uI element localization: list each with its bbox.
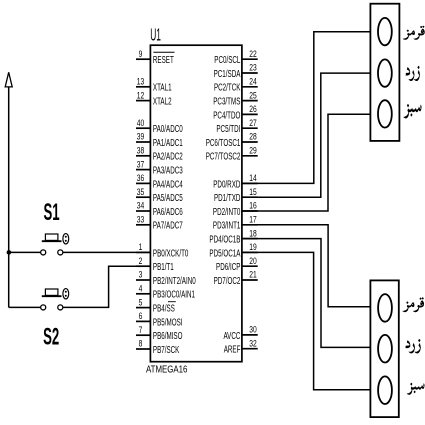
- svg-text:AREF: AREF: [224, 343, 241, 355]
- svg-text:PD2/INT0: PD2/INT0: [213, 205, 241, 217]
- lamp TL2 green: [378, 376, 392, 404]
- svg-text:PB6/MISO: PB6/MISO: [153, 329, 183, 341]
- pin 32 AREF of U1: [224, 338, 258, 355]
- wire vertical rail on left: [8, 77, 10, 307]
- svg-text:PA0/ADC0: PA0/ADC0: [153, 122, 183, 134]
- wire pin16 PD2/INT0 to top lamp green: [242, 114, 371, 211]
- svg-text:30: 30: [249, 324, 257, 334]
- pin 3 PB2/INT2/AIN0 of U1: [136, 270, 196, 287]
- pin 36 PA4/ADC4 of U1: [136, 173, 183, 190]
- wire S2 right terminal up to pin 2 PB1: [63, 266, 150, 307]
- svg-text:S1: S1: [44, 199, 60, 226]
- pin 25 PC3/TMS of U1: [213, 90, 257, 107]
- svg-text:21: 21: [249, 270, 257, 280]
- svg-text:PA4/ADC4: PA4/ADC4: [153, 178, 183, 190]
- pin 39 PA1/ADC1 of U1: [136, 132, 183, 149]
- wire pin15 PD1/TXD to top lamp yellow: [242, 73, 371, 197]
- svg-text:PC0/SCL: PC0/SCL: [214, 53, 240, 65]
- pin 2 PB1/T1 of U1: [136, 256, 174, 273]
- wire pin17 PD3/INT1 to bottom lamp red: [242, 225, 371, 307]
- svg-text:13: 13: [137, 76, 145, 86]
- svg-text:29: 29: [249, 145, 257, 155]
- svg-text:PC2/TCK: PC2/TCK: [214, 81, 241, 93]
- svg-text:24: 24: [249, 76, 257, 86]
- pin 8 PB7/SCK of U1: [136, 339, 180, 356]
- svg-text:2: 2: [139, 256, 143, 266]
- svg-text:28: 28: [249, 132, 257, 142]
- label sabz (green) top box: [404, 104, 422, 119]
- svg-text:4: 4: [139, 283, 143, 293]
- label qermez (red) top box: [403, 26, 425, 40]
- lamp TL2 red: [378, 294, 392, 322]
- switch S2 push button: [41, 289, 69, 310]
- svg-text:9: 9: [139, 49, 143, 59]
- label qermez (red) bottom box: [403, 297, 425, 312]
- lamp TL1 green: [378, 100, 392, 127]
- svg-text:PA6/ADC6: PA6/ADC6: [153, 205, 183, 217]
- svg-text:AVCC: AVCC: [223, 329, 240, 341]
- pin 33 PA7/ADC7 of U1: [136, 214, 183, 231]
- pin 18 PD4/OC1B of U1: [209, 228, 257, 245]
- svg-text:PA3/ADC3: PA3/ADC3: [153, 164, 183, 176]
- pin 37 PA3/ADC3 of U1: [136, 159, 183, 176]
- svg-text:PC6/TOSC1: PC6/TOSC1: [206, 136, 241, 148]
- svg-text:PB3/OC0/AIN1: PB3/OC0/AIN1: [153, 288, 195, 300]
- pin 4 PB3/OC0/AIN1 of U1: [136, 283, 195, 300]
- svg-text:18: 18: [249, 228, 257, 238]
- pin 35 PA5/ADC5 of U1: [136, 187, 183, 204]
- svg-text:33: 33: [137, 214, 145, 224]
- svg-text:27: 27: [249, 118, 257, 128]
- svg-text:19: 19: [249, 242, 257, 252]
- svg-text:S2: S2: [43, 324, 59, 351]
- svg-text:1: 1: [139, 242, 143, 252]
- pin 12 XTAL2 of U1: [136, 90, 172, 107]
- svg-text:37: 37: [137, 159, 145, 169]
- svg-text:PD0/RXD: PD0/RXD: [213, 178, 240, 190]
- svg-text:15: 15: [249, 187, 257, 197]
- svg-text:17: 17: [249, 214, 257, 224]
- lamp TL2 yellow: [378, 335, 392, 363]
- svg-text:PD1/TXD: PD1/TXD: [214, 191, 240, 203]
- svg-text:16: 16: [249, 201, 257, 211]
- wire pin14 PD0/RXD to top lamp red: [242, 32, 371, 184]
- svg-text:38: 38: [137, 145, 145, 155]
- svg-text:26: 26: [249, 104, 257, 114]
- pin 13 XTAL1 of U1: [136, 76, 172, 93]
- junction node dot at S1 row: [7, 250, 12, 255]
- svg-text:PB4/SS: PB4/SS: [153, 302, 175, 314]
- svg-text:PC3/TMS: PC3/TMS: [213, 95, 240, 107]
- svg-text:PD6/ICP: PD6/ICP: [216, 260, 241, 272]
- traffic light box TL2 (bottom) outline: [370, 280, 398, 417]
- pin 24 PC2/TCK of U1: [214, 76, 258, 93]
- traffic light box TL1 (top) outline: [370, 4, 399, 141]
- svg-text:PD3/INT1: PD3/INT1: [213, 219, 241, 231]
- svg-text:RESET: RESET: [153, 53, 174, 65]
- pin 19 PD5/OC1A of U1: [209, 242, 257, 259]
- pin 29 PC7/TOSC2 of U1: [206, 145, 258, 162]
- svg-text:6: 6: [139, 311, 143, 321]
- pin 38 PA2/ADC2 of U1: [136, 145, 183, 162]
- lamp TL1 yellow: [378, 59, 392, 86]
- label zard (yellow) bottom box: [405, 339, 420, 353]
- svg-text:25: 25: [249, 90, 257, 100]
- svg-text:ATMEGA16: ATMEGA16: [146, 364, 188, 375]
- svg-text:PD4/OC1B: PD4/OC1B: [209, 233, 240, 245]
- pin 23 PC1/SDA of U1: [214, 63, 258, 80]
- pin 5 PB4/SS of U1: [136, 297, 176, 314]
- pin 30 AVCC of U1: [223, 324, 257, 341]
- wire left rail corner to S2 left terminal: [9, 306, 41, 308]
- svg-text:36: 36: [137, 173, 145, 183]
- svg-text:PB2/INT2/AIN0: PB2/INT2/AIN0: [153, 274, 196, 286]
- pin 34 PA6/ADC6 of U1: [136, 201, 183, 218]
- svg-text:3: 3: [139, 270, 143, 280]
- wire pin18 PD4/OC1B to bottom lamp yellow: [242, 239, 371, 348]
- svg-text:40: 40: [137, 118, 145, 128]
- pin 1 PB0/XCK/T0 of U1: [136, 242, 189, 259]
- svg-text:8: 8: [139, 339, 143, 349]
- pin 22 PC0/SCL of U1: [214, 49, 257, 66]
- svg-text:PA5/ADC5: PA5/ADC5: [153, 191, 183, 203]
- wire S1 right terminal to pin 1 PB0: [63, 251, 150, 253]
- pin 17 PD3/INT1 of U1: [213, 214, 258, 231]
- pin 7 PB6/MISO of U1: [136, 325, 183, 342]
- wire pin19 PD5/OC1A to bottom lamp green: [242, 252, 371, 389]
- arrow terminal at top of left rail: [5, 72, 12, 87]
- lamp TL1 red: [378, 18, 392, 45]
- pin 27 PC5/TDI of U1: [216, 118, 257, 135]
- svg-text:34: 34: [137, 201, 145, 211]
- svg-text:PC1/SDA: PC1/SDA: [214, 67, 241, 79]
- svg-text:14: 14: [249, 173, 257, 183]
- pin 6 PB5/MOSI of U1: [136, 311, 182, 328]
- svg-text:PA2/ADC2: PA2/ADC2: [153, 150, 183, 162]
- svg-text:PD7/OC2: PD7/OC2: [214, 274, 241, 286]
- svg-text:PC7/TOSC2: PC7/TOSC2: [206, 150, 241, 162]
- pin 15 PD1/TXD of U1: [214, 187, 258, 204]
- svg-text:PB1/T1: PB1/T1: [153, 260, 174, 272]
- svg-text:22: 22: [249, 49, 257, 59]
- IC U1 body outline (ATMEGA16): [150, 45, 242, 362]
- svg-text:20: 20: [249, 256, 257, 266]
- label sabz (green) bottom box: [407, 383, 425, 395]
- wire left rail to S1 left terminal: [9, 251, 41, 253]
- svg-text:PA7/ADC7: PA7/ADC7: [153, 219, 183, 231]
- svg-text:PD5/OC1A: PD5/OC1A: [209, 247, 240, 259]
- svg-text:7: 7: [139, 325, 143, 335]
- pin 20 PD6/ICP of U1: [216, 256, 258, 273]
- svg-text:U1: U1: [150, 25, 161, 44]
- svg-text:XTAL2: XTAL2: [153, 95, 172, 107]
- svg-text:23: 23: [249, 63, 257, 73]
- svg-text:35: 35: [137, 187, 145, 197]
- svg-text:PB7/SCK: PB7/SCK: [153, 343, 180, 355]
- switch S1 push button: [41, 234, 69, 255]
- label zard (yellow) top box: [406, 66, 420, 81]
- svg-text:32: 32: [249, 338, 257, 348]
- svg-text:XTAL1: XTAL1: [153, 81, 172, 93]
- pin 28 PC6/TOSC1 of U1: [206, 132, 258, 149]
- svg-text:PA1/ADC1: PA1/ADC1: [153, 136, 183, 148]
- pin 40 PA0/ADC0 of U1: [136, 118, 183, 135]
- pin 14 PD0/RXD of U1: [213, 173, 257, 190]
- pin 16 PD2/INT0 of U1: [213, 201, 258, 218]
- svg-text:PC4/TDO: PC4/TDO: [213, 109, 240, 121]
- pin 21 PD7/OC2 of U1: [214, 270, 258, 287]
- svg-text:39: 39: [137, 132, 145, 142]
- svg-text:PB0/XCK/T0: PB0/XCK/T0: [153, 247, 189, 259]
- svg-text:12: 12: [137, 90, 145, 100]
- pin 9 RESET of U1: [136, 49, 175, 66]
- svg-text:5: 5: [139, 297, 143, 307]
- svg-text:PC5/TDI: PC5/TDI: [216, 122, 240, 134]
- svg-text:PB5/MOSI: PB5/MOSI: [153, 316, 183, 328]
- pin 26 PC4/TDO of U1: [213, 104, 257, 121]
